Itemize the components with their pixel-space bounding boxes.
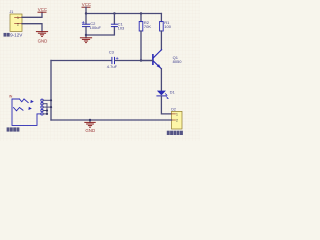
junction rail/C1 (113, 12, 115, 14)
junction signal bus pin1 (50, 99, 52, 101)
svg-text:70K: 70K (144, 24, 151, 29)
junction signal bus pin3 (50, 106, 52, 108)
svg-text:IN: IN (9, 94, 13, 98)
svg-text:2: 2 (176, 118, 178, 122)
svg-text:100uF: 100uF (90, 25, 102, 30)
svg-text:9-12V: 9-12V (10, 33, 23, 38)
jack pin 3 circle (41, 106, 43, 108)
capacitor C1 (103) (111, 14, 117, 27)
wire jack pin4 tick (43, 110, 47, 112)
svg-text:4.7uF: 4.7uF (107, 64, 118, 69)
J1 pin 1 stub inside box (15, 16, 23, 18)
wire jack pin2 tick (43, 103, 47, 105)
contact 1 (24, 99, 28, 103)
wire J1 pin1 to VCC (22, 12, 42, 17)
audio jack J2 (IN) (12, 99, 43, 125)
svg-text:D1: D1 (170, 89, 176, 94)
wire base (141, 60, 152, 62)
ground GND (left) (36, 32, 47, 37)
connector D2 (laser module) (172, 111, 183, 129)
power port VCC (left) (38, 11, 46, 13)
contact 1 arrow (30, 100, 33, 103)
wire jack pin3 tick (43, 106, 51, 108)
wire VCC stem to rail (85, 7, 87, 13)
wire emitter down (160, 69, 162, 91)
J1 pin 2 stub inside box (15, 23, 23, 25)
ground GND (bottom) (85, 120, 95, 127)
junction switch bus pin4 (46, 109, 48, 111)
contact 2 arrow (28, 107, 31, 110)
svg-text:1: 1 (17, 16, 19, 20)
junction ground bus / GND (89, 119, 91, 121)
jack pin 1 circle (41, 99, 43, 101)
svg-text:VCC: VCC (38, 7, 47, 12)
svg-text:C3: C3 (109, 50, 115, 55)
D2 pin 1 stub (172, 113, 176, 115)
junction rail/R2 (140, 12, 142, 14)
tip notch (20, 99, 25, 102)
transistor Q1 (NPN 8050) (153, 50, 162, 69)
ground (under C2) (80, 35, 91, 43)
svg-text:2: 2 (17, 22, 19, 26)
svg-text:D2: D2 (171, 107, 176, 111)
jack body (12, 99, 37, 125)
resistor R1 (100) (160, 14, 164, 50)
contact 2 (14, 108, 24, 111)
wire D1 cathode to connector pin 1 (161, 96, 171, 114)
capacitor C2 (electrolytic 100uF) (82, 14, 89, 36)
svg-text:J1: J1 (10, 10, 14, 14)
resistor R2 (70K) (139, 14, 143, 61)
D2 pin 2 stub (172, 119, 176, 121)
connector J1 (power input) (10, 14, 22, 31)
wire signal bus to C3 (50, 61, 52, 121)
svg-text:100: 100 (164, 24, 171, 29)
wire VCC rail (86, 13, 161, 15)
wire C3 right to base (115, 60, 152, 62)
svg-text:103: 103 (118, 25, 125, 30)
LED D1 (157, 91, 169, 99)
jack pin 5 circle (41, 113, 43, 115)
wire C1 bottom to ground node (86, 27, 114, 35)
wire jack pin5 tick (43, 113, 47, 115)
svg-text:8050: 8050 (173, 59, 183, 64)
D2 value label 激光发射管 (167, 131, 183, 135)
wire C3 left (51, 60, 111, 62)
junction base/R2 (140, 59, 142, 61)
capacitor C3 (4.7uF coupling) (51, 57, 152, 63)
svg-text:GND: GND (85, 128, 95, 133)
J2 value label 音频输入 (7, 127, 20, 131)
svg-text:VCC: VCC (82, 2, 91, 7)
junction C2/ground/C1-return (85, 34, 87, 36)
junction switch bus pin5 (46, 113, 48, 115)
jack pin 2 circle (41, 103, 43, 105)
jack pin 4 circle (41, 109, 43, 111)
svg-text:1: 1 (176, 112, 178, 116)
junction rail/C2 (85, 12, 87, 14)
J1 value label 电源9-12V (4, 33, 24, 38)
power port VCC (rail) (82, 6, 90, 8)
sleeve link (37, 113, 41, 115)
wire J1 pin2 to GND (22, 24, 42, 32)
wire switch bus to ground wire (46, 104, 48, 114)
svg-text:GND: GND (38, 39, 48, 44)
wire jack pin1 tick (43, 99, 51, 101)
wire ground bus (long bottom wire) (51, 119, 172, 121)
